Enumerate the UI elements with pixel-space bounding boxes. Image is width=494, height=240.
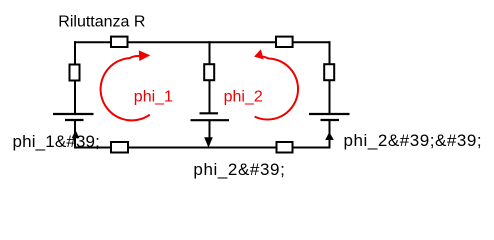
svg-text:Riluttanza R: Riluttanza R [58,14,145,31]
svg-text:phi_1&#39;: phi_1&#39; [13,132,101,151]
svg-text:phi_2&#39;: phi_2&#39; [193,160,285,179]
svg-text:phi_2&#39;&#39;: phi_2&#39;&#39; [344,131,483,150]
svg-text:phi_1: phi_1 [134,89,173,106]
svg-text:phi_2: phi_2 [224,89,263,106]
